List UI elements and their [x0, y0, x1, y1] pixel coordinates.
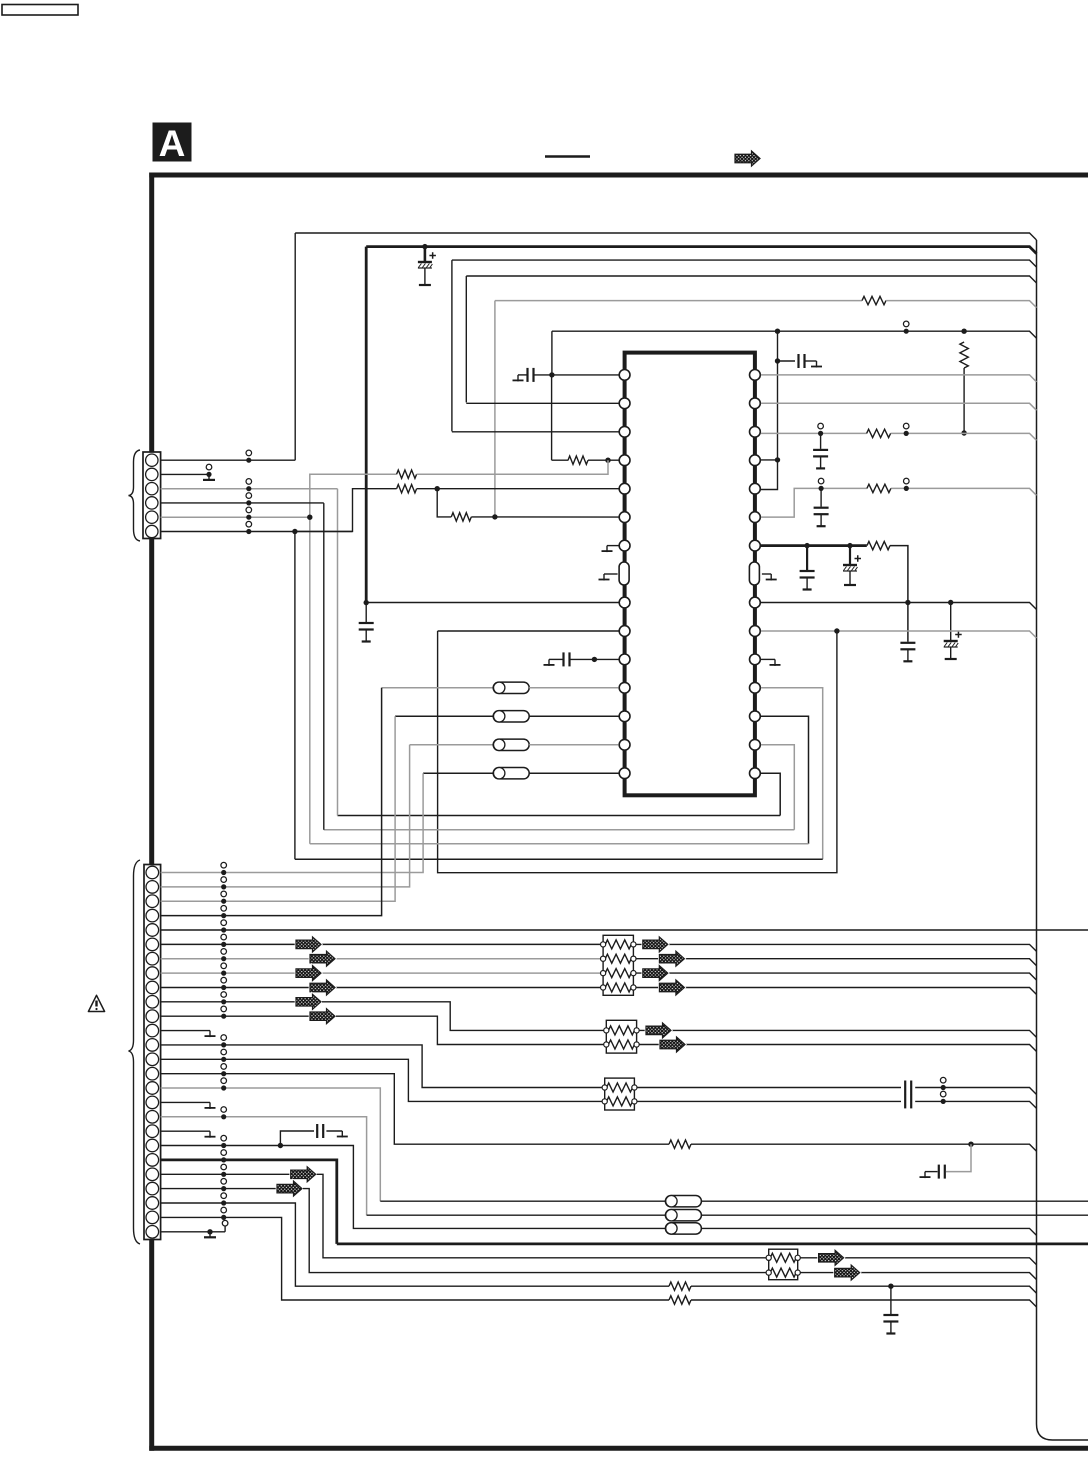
net q6 to dot: [417, 488, 438, 490]
ground step pin11L: [548, 659, 550, 666]
CN2 pin 23 circle: [146, 1182, 159, 1195]
CN2 p1 testpoint: [221, 862, 227, 868]
bead L3 left wire: [395, 715, 493, 717]
legend hatched arrow: [735, 151, 760, 166]
supply junction dot: [422, 244, 427, 249]
CN2 pin 8 circle: [146, 967, 159, 980]
CN1 p5 junction dot: [307, 515, 312, 520]
CN1 p6 testpoint: [246, 521, 252, 527]
conn1 p5 vertical: [309, 517, 311, 843]
connector CN1 brace: [129, 450, 141, 541]
CN2 p13 wire+staircase: [161, 1045, 603, 1088]
box3 R1 out wire: [637, 1087, 901, 1089]
frame left border: [149, 173, 154, 1451]
CN2 pin 4 circle: [146, 909, 159, 922]
row545 corner down: [890, 546, 908, 642]
CN2 p15 testpoint: [221, 1064, 227, 1070]
ferrite bead FB2: [493, 739, 529, 750]
CN2 pin 18 circle: [146, 1111, 159, 1124]
CN2 p17 ground: [209, 1102, 211, 1109]
pin6R riser to row488: [761, 488, 821, 517]
CN2 p10 testpoint: [221, 992, 227, 998]
IC right pin 13: [750, 711, 761, 722]
pin1L cap net wire: [535, 374, 619, 376]
testpoint 821.1 row488: [818, 478, 824, 484]
box4 out arrow 1: [819, 1250, 844, 1265]
pin4L row to pin: [588, 459, 619, 461]
junction dot at 494.9,516.9: [492, 514, 497, 519]
ferrite bead row1228: [665, 1223, 701, 1234]
junction dot 777.5,459.9 pin4R stub: [775, 457, 780, 462]
resistor R row517: [451, 513, 471, 521]
RN2 resistor 2: [608, 1040, 634, 1049]
CN2 p3 wire to bead riser: [161, 716, 396, 901]
IC left pin 11: [619, 654, 630, 665]
resistor R row545: [867, 541, 890, 549]
wrap net pin12R vertical: [761, 688, 823, 859]
CN1 p5 wire: [161, 516, 310, 518]
junction dot 964.1,433: [961, 430, 966, 435]
box4 out arrow 2: [835, 1265, 860, 1280]
thick supply vertical: [365, 247, 368, 603]
wire cap-gnd p20: [326, 1130, 342, 1132]
bead L4 left wire: [382, 687, 494, 689]
junction dot 971,1144.2: [968, 1142, 973, 1147]
CN2 pin 6 circle: [146, 938, 159, 951]
CN2 p22 wire: [161, 1173, 291, 1175]
RN3 resistor 1: [607, 1083, 633, 1092]
wire cap to gnd row1144: [925, 1171, 938, 1173]
CN1 p6 junction dot: [292, 529, 297, 534]
ground step row1144: [924, 1172, 926, 1179]
IC left oval pin 8: [619, 562, 629, 585]
CN2 pin 12 circle: [146, 1024, 159, 1037]
CN2 p19 ground: [209, 1131, 211, 1138]
row488 gray right (to bus): [891, 488, 1037, 495]
wrap net pin14R vertical: [761, 745, 794, 830]
wire cap-gnd pin11L: [570, 658, 594, 660]
IC left pin 12: [619, 682, 630, 693]
pin10R row gray: [761, 631, 1037, 638]
CN1 pin 1 circle: [146, 454, 158, 466]
CN2 pin 19 circle: [146, 1125, 159, 1138]
pin11L cap row: [594, 658, 618, 660]
CN1 p2 testpoint: [206, 464, 212, 470]
pin4L row segment: [552, 459, 569, 461]
CN2 p20 wire+staircase: [161, 1146, 666, 1229]
CN2 p13 testpoint: [221, 1035, 227, 1041]
wire cap to gnd pin1L: [518, 374, 527, 376]
resistor R pin4L: [568, 456, 588, 464]
CN2 pin 9 circle: [146, 981, 159, 994]
oval-L ground: [604, 573, 618, 575]
bead FB3 right wire: [529, 715, 618, 717]
CN1 pin 3 circle: [146, 483, 158, 495]
row1228 to bus: [701, 1228, 1036, 1235]
IC right pin 2: [750, 398, 761, 409]
wrap net row y859.2: [295, 858, 823, 860]
testpoint 906.3 row488: [904, 478, 910, 484]
IC right pin 14: [750, 739, 761, 750]
CN2 p16 testpoint: [221, 1078, 227, 1084]
resistor R row1285: [669, 1282, 691, 1290]
CN2 p6 wire: [161, 943, 601, 945]
junction dot 551.9 pin1L: [549, 372, 554, 377]
junction dot 437.2,488: [435, 486, 440, 491]
CN2 p16 row to bead: [380, 1200, 665, 1202]
IC right pin 12: [750, 682, 761, 693]
CN2 pin 24 circle: [146, 1197, 159, 1210]
over-IC net row y331: [552, 331, 1037, 338]
CN2 p12 ground: [209, 1031, 211, 1038]
capacitor C elec below 950.7: [950, 603, 952, 641]
testpoint 943 row0: [940, 1077, 946, 1083]
pin7R thick row: [761, 544, 867, 547]
CN2 pin 7 circle: [146, 952, 159, 965]
CN2 pin 3 circle: [146, 895, 159, 908]
CN2 pin 14 circle: [146, 1053, 159, 1066]
vertical riser x466.3: [465, 276, 467, 402]
connector CN2 body: [144, 865, 161, 1240]
CN1 pin 5 circle: [146, 511, 158, 523]
resistor R row1144: [669, 1140, 691, 1148]
ferrite bead FB1: [493, 768, 529, 779]
CN2 pin 2 circle: [146, 881, 159, 894]
wrap x437.6 down: [438, 631, 837, 873]
pin3R row gray left: [761, 432, 867, 434]
junction dot 280.4 p20: [278, 1143, 283, 1148]
ground step for C798: [816, 361, 818, 368]
CN2 p7 hatched arrow: [310, 951, 335, 966]
CN2 p17 ground wire: [161, 1101, 210, 1103]
resistor R vertical at 964: [960, 342, 968, 368]
row488 gray left: [821, 487, 867, 489]
box2 out arrow 2: [660, 1037, 685, 1052]
IC right pin 4: [750, 455, 761, 466]
IC right pin 9: [750, 597, 761, 608]
CN2 p11 testpoint: [221, 1006, 227, 1012]
wire below R964 to row433: [963, 368, 965, 433]
testpoint on row331: [903, 321, 909, 327]
CN1 p6 wire: [161, 531, 353, 533]
thick supply row: [366, 247, 1036, 254]
CN2 p9 testpoint: [221, 977, 227, 983]
IC left pin 10: [619, 626, 630, 637]
pin10L wrap row: [438, 630, 619, 632]
capacitor C below 821.1: [820, 488, 822, 506]
wrap net row y815.5: [338, 815, 781, 817]
section label A badge: [153, 123, 192, 162]
capacitor C-top electrolytic: [429, 252, 436, 259]
CN2 pin 25 circle: [146, 1211, 159, 1224]
CN2 p23 staircase: [303, 1189, 766, 1273]
CN2 p19 ground wire: [161, 1130, 210, 1132]
CN2 p4 wire to bead riser: [161, 688, 382, 916]
CN2 p6 hatched arrow: [296, 937, 321, 952]
svg-text:A: A: [159, 123, 186, 164]
IC left pin 6: [619, 512, 630, 523]
CN2 p11 hatched arrow: [310, 1009, 335, 1024]
pin2L row: [466, 402, 618, 404]
CN1 pin 4 circle: [146, 497, 158, 509]
capacitor C at 907.9: [900, 642, 915, 644]
IC left pin 9: [619, 597, 630, 608]
row1201 to right edge: [701, 1200, 1088, 1202]
junction dot 836.9,629.8: [834, 628, 839, 633]
row517 to pin6L: [471, 516, 619, 518]
junction dot 950.7,601.8: [948, 600, 953, 605]
conn1 pin1 vertical riser: [294, 233, 296, 460]
connector CN2 brace: [129, 860, 141, 1244]
pin11R ground: [761, 658, 775, 660]
capacitor C pin11L: [562, 652, 564, 666]
IC left pin 13: [619, 711, 630, 722]
CN2 pin 5 circle: [146, 924, 159, 937]
CN2 p7 testpoint: [221, 949, 227, 955]
capacitor C below supply: [365, 603, 367, 622]
junction dot 608,459.7: [605, 458, 610, 463]
gray vertical x494.9: [494, 301, 496, 517]
capacitor C p20 branch: [316, 1124, 318, 1138]
CN2 p14 testpoint: [221, 1049, 227, 1055]
CN1 p4 wire: [161, 502, 324, 504]
over-IC net: riser from cap junction: [551, 331, 553, 375]
IC left pin 4: [619, 455, 630, 466]
CN2 p12 ground wire: [161, 1030, 210, 1032]
resistor network RN2 box: [606, 1020, 636, 1053]
box1 R4 out wire: [636, 988, 1037, 995]
IC left pin 5: [619, 483, 630, 494]
conn1-p5 upper row right part: [417, 460, 608, 474]
CN2 p20 testpoint: [221, 1135, 227, 1141]
IC right pin 7: [750, 540, 761, 551]
frame top border: [149, 173, 1088, 178]
CN2 p9 wire: [161, 987, 601, 989]
pin2R row gray: [761, 403, 1037, 410]
CN2 p8 hatched arrow: [296, 966, 321, 981]
capacitor C below 890.9: [890, 1286, 892, 1314]
CN2 p24 wire+staircase: [161, 1203, 669, 1286]
wire row y276 (to bus): [466, 276, 1036, 283]
conn1 p4 vertical: [323, 503, 325, 830]
CN1 p1 wire: [161, 459, 296, 461]
wire row y300 gray left segment: [495, 300, 862, 302]
legend line sample: [545, 155, 590, 158]
warning triangle: [88, 995, 104, 1011]
CN2 p5 wire to right edge: [161, 929, 1088, 931]
pin9L supply row: [366, 602, 618, 604]
CN2 pin 10 circle: [146, 996, 159, 1009]
CN2 p9 hatched arrow: [310, 980, 335, 995]
CN2 p1 wire to bead riser: [161, 773, 424, 872]
CN1 p3 testpoint: [246, 479, 252, 485]
IC U1 body: [625, 353, 755, 796]
bead L1 left wire: [423, 772, 493, 774]
junction dot 777.5,361: [775, 358, 780, 363]
CN2 p24 testpoint: [221, 1193, 227, 1199]
IC left pin 3: [619, 426, 630, 437]
CN2 p21 thick wire: [161, 1160, 337, 1244]
box1 out arrow 3: [643, 966, 668, 981]
box4 R2 out wire: [800, 1273, 1036, 1280]
wrap net pin15R vertical: [761, 773, 780, 815]
wrap net row y829.8: [324, 829, 795, 831]
pin5L row (net q6): [437, 488, 618, 490]
resistor network RN1 box: [603, 935, 633, 995]
CN2 p15 wire+staircase: [161, 1074, 669, 1145]
ground step p20 branch: [341, 1131, 343, 1138]
RN1 resistor 3: [605, 969, 631, 978]
CN2 p7 wire: [161, 958, 601, 960]
resistor R row433: [867, 429, 891, 437]
wire row y300 gray right segment (to bus): [886, 301, 1037, 308]
RN1 resistor 4: [605, 983, 631, 992]
CN2 p18 wire+staircase: [161, 1117, 367, 1215]
junction dot 850 row545: [847, 543, 852, 548]
box1 R1 out wire: [636, 944, 1037, 951]
CN2 p4 testpoint: [221, 906, 227, 912]
conn1-p5 upper row y474.2: [310, 474, 397, 517]
CN2 pin 26 circle: [146, 1226, 159, 1239]
box1 out arrow 1: [643, 937, 668, 952]
CN2 p21 testpoint: [221, 1150, 227, 1156]
RN1 resistor 2: [605, 954, 631, 963]
resistor network RN4 box: [769, 1249, 798, 1280]
capacitor C elec below 850: [849, 546, 851, 564]
pin1R row gray: [761, 375, 1037, 382]
CN2 p10 hatched arrow: [296, 994, 321, 1009]
box2 out arrow 1: [646, 1023, 671, 1038]
row1215 to right edge: [701, 1214, 1088, 1216]
resistor R-row300: [862, 296, 886, 304]
frame bottom border: [149, 1446, 1088, 1451]
CN2 p10 staircase: [322, 1002, 604, 1031]
CN2 p25 testpoint: [221, 1207, 227, 1213]
CN2 p23 wire: [161, 1188, 277, 1190]
CN2 pin 21 circle: [146, 1154, 159, 1167]
CN1 p5 testpoint: [246, 507, 252, 513]
vertical riser x451.9: [451, 260, 453, 431]
junction dot 907.9,601.8: [905, 600, 910, 605]
row1285 to bus: [691, 1286, 1037, 1293]
CN2 p23 hatched arrow: [277, 1181, 302, 1196]
box3 R2 out wire: [637, 1100, 901, 1102]
row0 after cap to bus: [915, 1088, 1036, 1095]
CN2 p23 testpoint: [221, 1179, 227, 1185]
CN2 p26 junction dot: [207, 1229, 212, 1234]
CN2 pin 15 circle: [146, 1067, 159, 1080]
IC right pin 11: [750, 654, 761, 665]
net q6 riser+row: [295, 489, 397, 532]
ferrite bead row1215: [665, 1210, 701, 1221]
CN1 p2 ground: [208, 474, 210, 480]
IC right pin 1: [750, 370, 761, 381]
CN2 p25 wire+staircase: [161, 1217, 669, 1300]
IC right oval pin 8: [749, 562, 759, 585]
RN1 resistor 1: [605, 940, 631, 949]
IC right pin 3: [750, 426, 761, 437]
CN2 p11 wire: [161, 1015, 310, 1017]
bead L2 left wire: [410, 744, 494, 746]
CN1 p2 wire: [161, 473, 209, 475]
bus vertical right trunk: [1037, 240, 1088, 1440]
row1300 to bus: [691, 1300, 1037, 1307]
CN1 p4 testpoint: [246, 493, 252, 499]
resistor R y474: [397, 470, 417, 478]
testpoint 943 row1: [940, 1091, 946, 1097]
box1 R3 out wire: [636, 973, 1037, 980]
bead FB1 right wire: [529, 772, 618, 774]
CN2 pin 1 circle: [146, 866, 159, 879]
CN2 p10 wire: [161, 1001, 296, 1003]
RN4 resistor 1: [770, 1253, 796, 1262]
title box top-left: [2, 5, 78, 16]
CN2 pin 11 circle: [146, 1010, 159, 1023]
ferrite bead FB3: [493, 711, 529, 722]
box1 R2 out wire: [636, 959, 1037, 966]
IC right pin 10: [750, 626, 761, 637]
IC right pin 15: [750, 768, 761, 779]
CN1 p3 wire: [161, 488, 338, 490]
CN2 p18 testpoint: [221, 1107, 227, 1113]
CN2 p26 stub circle: [224, 1226, 226, 1232]
junction dot 366.2,602.6: [364, 600, 369, 605]
CN2 p2 testpoint: [221, 877, 227, 883]
IC right pin 5: [750, 483, 761, 494]
capacitor C series row0: [904, 1081, 906, 1095]
CN2 p2 wire to bead riser: [161, 745, 410, 887]
capacitor C pin1L: [526, 368, 528, 382]
box1 out arrow 4: [659, 980, 684, 995]
ground step pin1L: [517, 375, 519, 382]
connector CN1 body: [143, 452, 161, 539]
capacitor C below 820.6: [820, 433, 822, 449]
capacitor C row1144 branch: [938, 1165, 940, 1179]
CN2 pin 13 circle: [146, 1039, 159, 1052]
vertical x777.5 (row331 to pin5R): [757, 331, 778, 489]
pin7L ground: [607, 545, 619, 547]
bead FB2 right wire: [529, 744, 618, 746]
CN2 p26 wire: [161, 1231, 226, 1233]
CN2 p8 testpoint: [221, 963, 227, 969]
resistor R row1300: [669, 1296, 691, 1304]
junction dot 807.1 row545: [804, 543, 809, 548]
net q6 drop to row517: [437, 489, 451, 517]
CN2 p14 wire+staircase: [161, 1059, 603, 1101]
p20 cap branch: [280, 1131, 314, 1146]
wire net-A top row (conn1 pin1 to bus): [295, 233, 1036, 240]
IC left pin 2: [619, 398, 630, 409]
capacitor C below 807.1: [806, 546, 808, 570]
IC left pin 15: [619, 768, 630, 779]
oval-R ground: [762, 573, 771, 575]
CN2 p5 testpoint: [221, 920, 227, 926]
conn1 p6 vertical: [294, 531, 296, 859]
IC right pin 6: [750, 512, 761, 523]
CN2 p22 hatched arrow: [291, 1167, 316, 1182]
testpoint 820.6 row433: [818, 423, 824, 429]
CN2 p18 row to bead: [367, 1214, 666, 1216]
RN4 resistor 2: [770, 1268, 796, 1277]
row1144 to bus: [691, 1144, 1037, 1151]
CN2 pin 16 circle: [146, 1082, 159, 1095]
IC left pin 7: [619, 540, 630, 551]
IC left pin 14: [619, 739, 630, 750]
resistor R row488: [867, 484, 891, 492]
box1 out arrow 2: [659, 951, 684, 966]
ferrite bead row1201: [665, 1196, 701, 1207]
resistor network RN3 box: [605, 1078, 635, 1110]
